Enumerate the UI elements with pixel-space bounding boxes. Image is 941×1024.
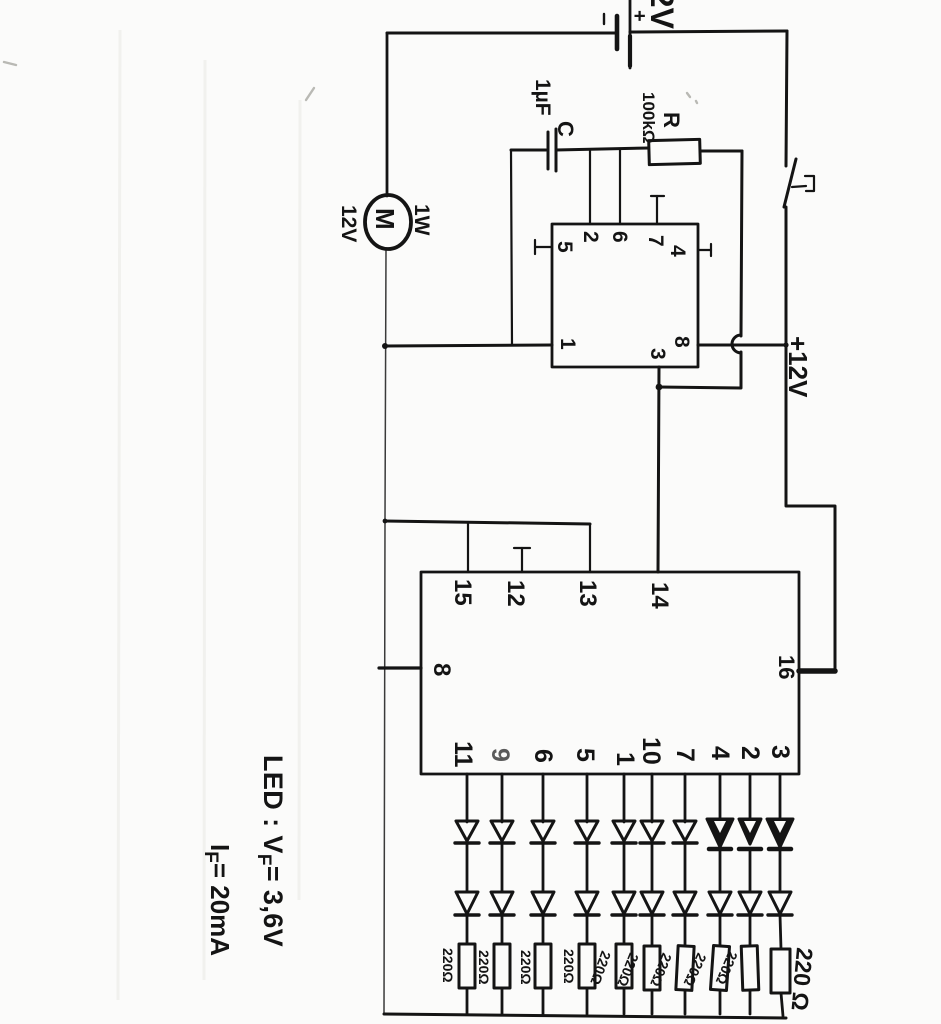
svg-text:9: 9 xyxy=(486,748,514,762)
svg-text:8: 8 xyxy=(670,336,693,348)
svg-text:15: 15 xyxy=(449,579,476,606)
svg-text:6: 6 xyxy=(529,749,557,763)
svg-text:7: 7 xyxy=(671,748,699,762)
svg-text:1µF: 1µF xyxy=(531,79,554,116)
svg-text:M: M xyxy=(370,208,400,230)
svg-text:6: 6 xyxy=(608,231,631,243)
svg-text:100kΩ: 100kΩ xyxy=(639,92,658,143)
svg-text:5: 5 xyxy=(571,748,599,762)
svg-text:R: R xyxy=(659,112,684,128)
svg-text:3: 3 xyxy=(646,348,669,360)
svg-text:16: 16 xyxy=(774,655,799,679)
svg-text:11: 11 xyxy=(449,741,477,768)
svg-text:+: + xyxy=(628,10,650,22)
svg-text:220Ω: 220Ω xyxy=(440,948,456,983)
svg-text:12V: 12V xyxy=(337,205,360,242)
svg-text:4: 4 xyxy=(666,245,689,257)
svg-text:7: 7 xyxy=(644,235,667,247)
svg-text:220Ω: 220Ω xyxy=(518,950,534,985)
svg-text:LED : VF= 3,6V: LED : VF= 3,6V xyxy=(253,755,288,947)
svg-text:3: 3 xyxy=(766,745,794,759)
svg-text:8: 8 xyxy=(428,663,455,676)
svg-text:1W: 1W xyxy=(410,204,433,236)
svg-text:1: 1 xyxy=(611,752,639,766)
svg-text:10: 10 xyxy=(637,737,665,765)
svg-text:2: 2 xyxy=(736,746,764,760)
svg-text:1: 1 xyxy=(556,338,579,350)
svg-text:12: 12 xyxy=(502,580,529,607)
svg-text:14: 14 xyxy=(646,582,673,609)
svg-text:4: 4 xyxy=(706,746,734,760)
svg-text:C: C xyxy=(553,121,578,137)
svg-text:220Ω: 220Ω xyxy=(561,949,577,984)
svg-text:5: 5 xyxy=(553,241,576,253)
svg-text:13: 13 xyxy=(574,580,601,607)
svg-text:220Ω: 220Ω xyxy=(476,950,492,985)
svg-text:2: 2 xyxy=(579,231,602,243)
svg-text:220 Ω: 220 Ω xyxy=(787,947,818,1012)
svg-text:+12V: +12V xyxy=(783,336,813,398)
